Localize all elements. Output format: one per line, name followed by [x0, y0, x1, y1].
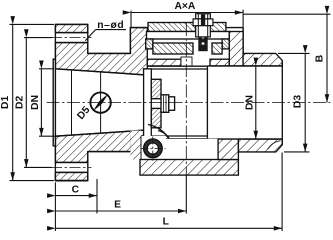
svg-text:D2: D2 — [15, 96, 26, 109]
svg-text:L: L — [163, 217, 169, 228]
svg-text:C: C — [72, 185, 80, 196]
svg-text:D3: D3 — [293, 95, 304, 108]
svg-text:DN: DN — [245, 95, 256, 110]
svg-text:DN: DN — [30, 95, 41, 110]
svg-text:D1: D1 — [0, 96, 11, 109]
svg-text:B: B — [315, 55, 326, 62]
svg-text:A×A: A×A — [174, 1, 195, 12]
svg-text:E: E — [114, 200, 121, 211]
svg-text:n–ød: n–ød — [97, 20, 124, 31]
